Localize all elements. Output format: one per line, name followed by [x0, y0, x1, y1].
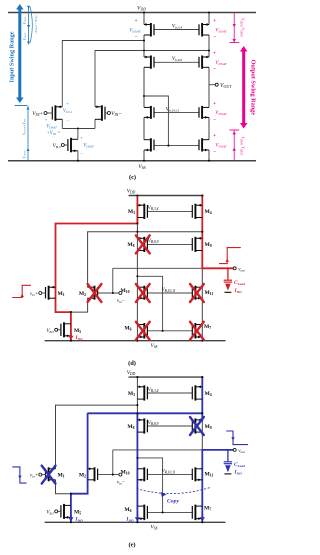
pmos M8 (e) [137, 418, 147, 433]
wire mirror gate riser (e) [137, 458, 162, 513]
power rail VDD (e) [129, 376, 204, 378]
wire v_out feedback riser (e) [112, 450, 114, 475]
svg-text:CLoad: CLoad [234, 280, 245, 286]
svg-text:M7: M7 [204, 324, 211, 330]
annotation tick input min level (c) [15, 105, 28, 107]
svg-text:VDSAT: VDSAT [23, 150, 27, 159]
highlight path output discharge M11-M7 (e) [202, 450, 233, 522]
svg-text:IDD: IDD [75, 335, 84, 341]
svg-text:IDD: IDD [125, 517, 134, 523]
current arrow at load (d) [225, 284, 231, 291]
pmos M3 (e) [137, 385, 147, 400]
output step icon rising v_out (d) [219, 248, 241, 264]
svg-text:VIN+: VIN+ [32, 111, 43, 117]
disabled cross on M11 (d) [190, 284, 204, 302]
wire gate row V_B,3,4 (e) [147, 392, 192, 394]
svg-text:+: + [213, 101, 216, 107]
input step icon rising v_in+ (d) [12, 285, 31, 297]
svg-text:M8: M8 [127, 424, 134, 430]
wire output node (e) [113, 449, 233, 451]
disabled cross on M2 (d) [88, 284, 102, 302]
svg-text:−: − [213, 117, 216, 123]
wire gate row bottom mirror (c) [154, 145, 199, 147]
load capacitor C_Load (e) [227, 450, 229, 461]
pmos M3 (d) [137, 204, 147, 219]
svg-text:M5: M5 [74, 509, 81, 515]
svg-text:VB,10,11: VB,10,11 [161, 468, 175, 475]
terminal V_B,5 (d) [58, 329, 61, 331]
svg-text:VB,8,9: VB,8,9 [148, 238, 159, 245]
disabled cross on M10 (d) [136, 284, 150, 302]
terminal V_B,5 (c) [64, 144, 68, 146]
svg-text:IDD: IDD [234, 288, 243, 294]
svg-text:VDSAT: VDSAT [46, 125, 57, 130]
terminal v_out (d) [233, 267, 236, 270]
disabled cross on M8 (d) [136, 235, 150, 253]
svg-text:−: − [66, 119, 69, 124]
wire output node (d) [113, 267, 233, 269]
pmos output cascode (c) [199, 56, 209, 69]
svg-text:VIN−: VIN− [111, 111, 122, 117]
power rail VDD (c) [8, 12, 256, 14]
nmos output bottom (c) [199, 138, 209, 151]
current arrow I_DD tail (d) [70, 333, 72, 337]
nmos tail M5 (d) [61, 322, 71, 337]
nmos M7 (d) [192, 323, 202, 339]
svg-text:Copy: Copy [167, 499, 179, 505]
current arrow I_DD tail (e) [70, 514, 72, 518]
disabled cross on M9 (e) [190, 417, 204, 435]
svg-text:vin−: vin− [117, 481, 125, 486]
svg-text:Vb,8,9: Vb,8,9 [172, 56, 182, 63]
terminal VIN+ (c) [47, 112, 52, 114]
disabled cross on M6 (d) [136, 322, 150, 340]
pmos input M2 (e) [88, 467, 98, 481]
svg-text:VB,3,4: VB,3,4 [148, 387, 159, 394]
svg-text:M6: M6 [124, 507, 131, 513]
wire center column (d) [136, 196, 138, 341]
current arrow right branch (e) [201, 514, 203, 518]
highlight path M2 mesh wire (e) [88, 412, 203, 414]
svg-text:Output Swing Range: Output Swing Range [250, 60, 257, 116]
svg-text:−: − [134, 34, 137, 40]
wire right column (d) [201, 196, 203, 341]
wire right column (c) [208, 13, 210, 25]
power rail VSS (c) [8, 160, 256, 162]
svg-text:M11: M11 [205, 290, 214, 296]
svg-text:(c): (c) [129, 174, 136, 181]
wire M2 source mesh (c) [95, 51, 209, 107]
wire gate row V_b,3,4 (c) [154, 29, 199, 31]
pmos M9 (d) [192, 237, 202, 252]
load capacitor C_Load (d) [227, 268, 229, 279]
disabled cross on M1 (e) [42, 466, 56, 484]
power rail VDD (d) [129, 195, 204, 197]
wire M1 source riser (c) [62, 41, 144, 107]
nmos tail M5 (e) [61, 504, 71, 519]
pmos M4 (e) [192, 385, 202, 400]
wire gate row V_B,8,9 (d) [147, 243, 192, 245]
pmos input M1 (e) [46, 467, 56, 481]
terminal v_in- (d) [119, 292, 122, 295]
svg-text:+: + [213, 133, 216, 139]
svg-text:M5: M5 [74, 328, 81, 334]
svg-text:Input Swing Range: Input Swing Range [9, 31, 16, 82]
wire input pair drains to tail (c) [61, 119, 63, 128]
svg-text:vin+: vin+ [30, 292, 38, 297]
terminal V_B,5 (e) [58, 510, 61, 512]
wire M1 source to M3 drain (e) [56, 405, 138, 469]
wire gate row V_B,8,9 (e) [147, 425, 192, 427]
current arrow center mirror (e) [136, 514, 138, 518]
svg-text:IDD: IDD [234, 470, 243, 476]
current arrow at load (e) [225, 465, 231, 472]
nmos output cascode (c) [199, 106, 209, 119]
disabled cross on M7 (d) [190, 322, 204, 340]
svg-text:VB,8,9: VB,8,9 [148, 420, 159, 427]
svg-text:VDSAT: VDSAT [215, 28, 228, 34]
wire M2 source mesh (d) [88, 232, 203, 288]
terminal VIN- (c) [105, 112, 107, 114]
svg-text:VSS: VSS [151, 343, 158, 349]
wire gate row V_B,3,4 (d) [147, 210, 192, 212]
pmos M4 (d) [192, 204, 202, 219]
terminal v_in+ (e) [42, 474, 46, 476]
svg-text:VDSAT: VDSAT [215, 110, 228, 116]
svg-text:M10: M10 [120, 288, 129, 294]
highlight path M2 to tail M5 (e) [71, 413, 88, 522]
svg-text:M6: M6 [124, 326, 131, 332]
highlight current path VDD-M4-M9-output (d) [202, 196, 233, 269]
svg-text:M7: M7 [204, 506, 211, 512]
svg-text:VSS: VSS [138, 164, 145, 170]
svg-text:vout: vout [238, 449, 246, 454]
svg-text:vout: vout [238, 267, 246, 272]
nmos M6 (e) [137, 505, 147, 520]
svg-text:VDSAT: VDSAT [129, 28, 142, 34]
capacitor return tick (d) [224, 291, 231, 293]
wire tail column (e) [70, 494, 72, 523]
wire mirror feedback riser (c) [144, 96, 168, 146]
highlight path VDD-M4 (e) [201, 377, 203, 421]
wire pair drains to tail (e) [56, 480, 88, 494]
power rail VSS (e) [45, 521, 226, 523]
wire M2 gate to v_in- terminal (d) [98, 292, 119, 294]
nmos M6 (d) [137, 323, 147, 339]
svg-text:VDSAT: VDSAT [215, 60, 228, 66]
annotation input swing thick arrow (c) [18, 9, 21, 99]
wire center column (e) [136, 377, 138, 522]
svg-text:Vb,3,4: Vb,3,4 [172, 23, 182, 30]
copy arrow mirror action (e) [136, 488, 210, 494]
svg-text:+: + [213, 18, 216, 24]
nmos cascode V_b,10,11 left (c) [144, 106, 154, 119]
annotation top V_DSAT+V_DSAT arrow (c) [233, 13, 235, 43]
wire pair drains to tail (d) [56, 298, 88, 312]
svg-text:VDD: VDD [127, 370, 136, 376]
nmos mirror bottom left (c) [144, 138, 154, 151]
svg-text:+: + [80, 135, 83, 140]
terminal v_out (e) [233, 448, 236, 451]
svg-text:VDSAT: VDSAT [23, 16, 27, 25]
annotation brace =V_DSAT+|V_TH| (c) [30, 7, 32, 43]
wire mirror gate riser (d) [137, 276, 162, 331]
svg-text:+: + [134, 18, 137, 24]
wire M2 gate to v_in- terminal (e) [98, 474, 119, 476]
svg-text:M1: M1 [58, 291, 65, 297]
nmos M7 (e) [192, 505, 202, 520]
nmos M10 (e) [137, 467, 147, 481]
svg-text:VSS: VSS [151, 525, 158, 531]
pmos cascode V_b,8,9 left (c) [144, 56, 154, 69]
svg-text:(e): (e) [128, 542, 135, 549]
highlight path center column M8-M10-M6 (e) [136, 413, 138, 522]
annotation V_DSAT+V_TH sub-arrow (c) [27, 106, 29, 161]
terminal v_in- (e) [119, 473, 122, 476]
svg-text:−: − [80, 151, 83, 156]
svg-text:−: − [213, 34, 216, 40]
svg-text:CLoad: CLoad [234, 462, 245, 468]
svg-text:M4: M4 [205, 391, 212, 397]
pmos input M1 (c) [52, 105, 62, 121]
pmos input M2 (d) [88, 286, 98, 300]
pmos input M2 (c) [95, 105, 105, 121]
svg-text:VDD: VDD [137, 6, 146, 12]
svg-text:vin+: vin+ [30, 474, 38, 479]
svg-text:VB,3,4: VB,3,4 [148, 205, 159, 212]
wire right column (e) [201, 377, 203, 522]
pmos output top (c) [199, 23, 209, 37]
annotation bottom V_DSAT+V_DSAT arrow (c) [233, 130, 235, 161]
svg-text:VDSAT: VDSAT [23, 32, 27, 41]
svg-text:M11: M11 [205, 472, 214, 478]
svg-text:VB,10,11: VB,10,11 [161, 287, 175, 294]
svg-text:M3: M3 [128, 391, 135, 397]
svg-text:M4: M4 [205, 209, 212, 215]
wire M1 source to M3 drain (d) [56, 224, 138, 288]
svg-text:+: + [213, 50, 216, 56]
pmos input M1 (d) [46, 286, 56, 300]
svg-text:M2: M2 [79, 473, 86, 479]
svg-text:vin−: vin− [117, 299, 125, 304]
highlight current path VDD-M3-M1-M5 (d) [56, 196, 138, 341]
wire gate row V_b,8,9 (c) [154, 61, 199, 63]
terminal VOUT (c) [209, 84, 215, 86]
wire gate row bottom mirror (d) [147, 330, 192, 332]
svg-text:M9: M9 [205, 242, 212, 248]
svg-text:VDSAT: VDSAT [215, 143, 228, 149]
svg-text:VDSAT: VDSAT [83, 144, 94, 149]
terminal v_in+ (d) [42, 292, 46, 294]
power rail VSS (d) [45, 340, 226, 342]
svg-text:−: − [213, 149, 216, 155]
nmos tail V_B,5 (c) [68, 138, 78, 153]
annotation top V_DSAT arrows (c) [28, 6, 30, 45]
svg-text:Vb,10,11: Vb,10,11 [166, 107, 180, 114]
wire gate row V_B,10,11 (e) [147, 474, 192, 476]
annotation output swing thick arrow (c) [242, 51, 245, 125]
svg-text:M8: M8 [127, 242, 134, 248]
svg-text:VDSAT+VTH: VDSAT+VTH [23, 119, 27, 135]
wire center column (c) [143, 13, 145, 25]
svg-text:+VIN =: +VIN = [47, 131, 61, 136]
wire gate row V_B,10,11 (d) [147, 292, 192, 294]
svg-text:VOUT: VOUT [220, 83, 232, 89]
svg-text:M9: M9 [205, 424, 212, 430]
wire M2 source mesh (e) [88, 413, 203, 469]
nmos M11 (e) [192, 467, 202, 481]
input step icon falling v_in+ (e) [12, 467, 26, 483]
capacitor return tick (e) [224, 473, 231, 475]
svg-text:+: + [66, 101, 69, 106]
nmos M11 (d) [192, 286, 202, 300]
svg-text:M2: M2 [79, 291, 86, 297]
wire v_out feedback riser (d) [112, 268, 114, 293]
svg-text:M10: M10 [120, 469, 129, 475]
wire tail column (d) [70, 312, 72, 341]
output step icon falling v_out (e) [226, 431, 248, 445]
svg-text:VB,5: VB,5 [53, 143, 61, 150]
pmos M8 (d) [137, 237, 147, 252]
svg-text:VDD: VDD [127, 189, 136, 195]
svg-text:M3: M3 [128, 209, 135, 215]
wire gate row bottom mirror (e) [147, 511, 192, 513]
nmos M10 (d) [137, 286, 147, 300]
pmos cascode V_b,3,4 left (c) [144, 23, 154, 37]
svg-text:−: − [213, 67, 216, 73]
pmos M9 (e) [192, 418, 202, 433]
svg-text:IDD: IDD [75, 517, 84, 523]
svg-text:+: + [45, 117, 48, 122]
svg-text:(d): (d) [128, 360, 136, 367]
svg-text:M1: M1 [58, 473, 65, 479]
wire gate row V_b,10,11 (c) [154, 111, 199, 113]
